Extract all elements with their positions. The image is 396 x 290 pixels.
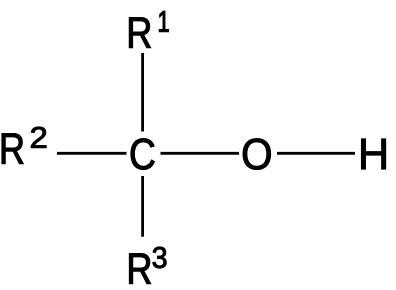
substituent label R3 letter R <box>129 254 150 284</box>
atom C (central carbon) <box>131 138 155 169</box>
substituent label R2 letter R <box>2 134 23 164</box>
bond O-H (right horizontal single bond) <box>277 152 355 155</box>
bond C-O (middle horizontal single bond) <box>161 152 240 155</box>
superscript 3 of R3 <box>153 247 167 268</box>
bond R2-C (left horizontal single bond) <box>57 152 127 155</box>
bond C-R3 (lower vertical single bond) <box>141 176 144 237</box>
atom H (hydroxyl hydrogen) <box>361 139 385 169</box>
bond R1-C (upper vertical single bond) <box>141 53 144 132</box>
superscript 2 of R2 <box>31 127 46 148</box>
atom O (oxygen) <box>243 138 271 169</box>
superscript 1 of R1 <box>159 11 168 32</box>
substituent label R1 letter R <box>129 18 150 48</box>
